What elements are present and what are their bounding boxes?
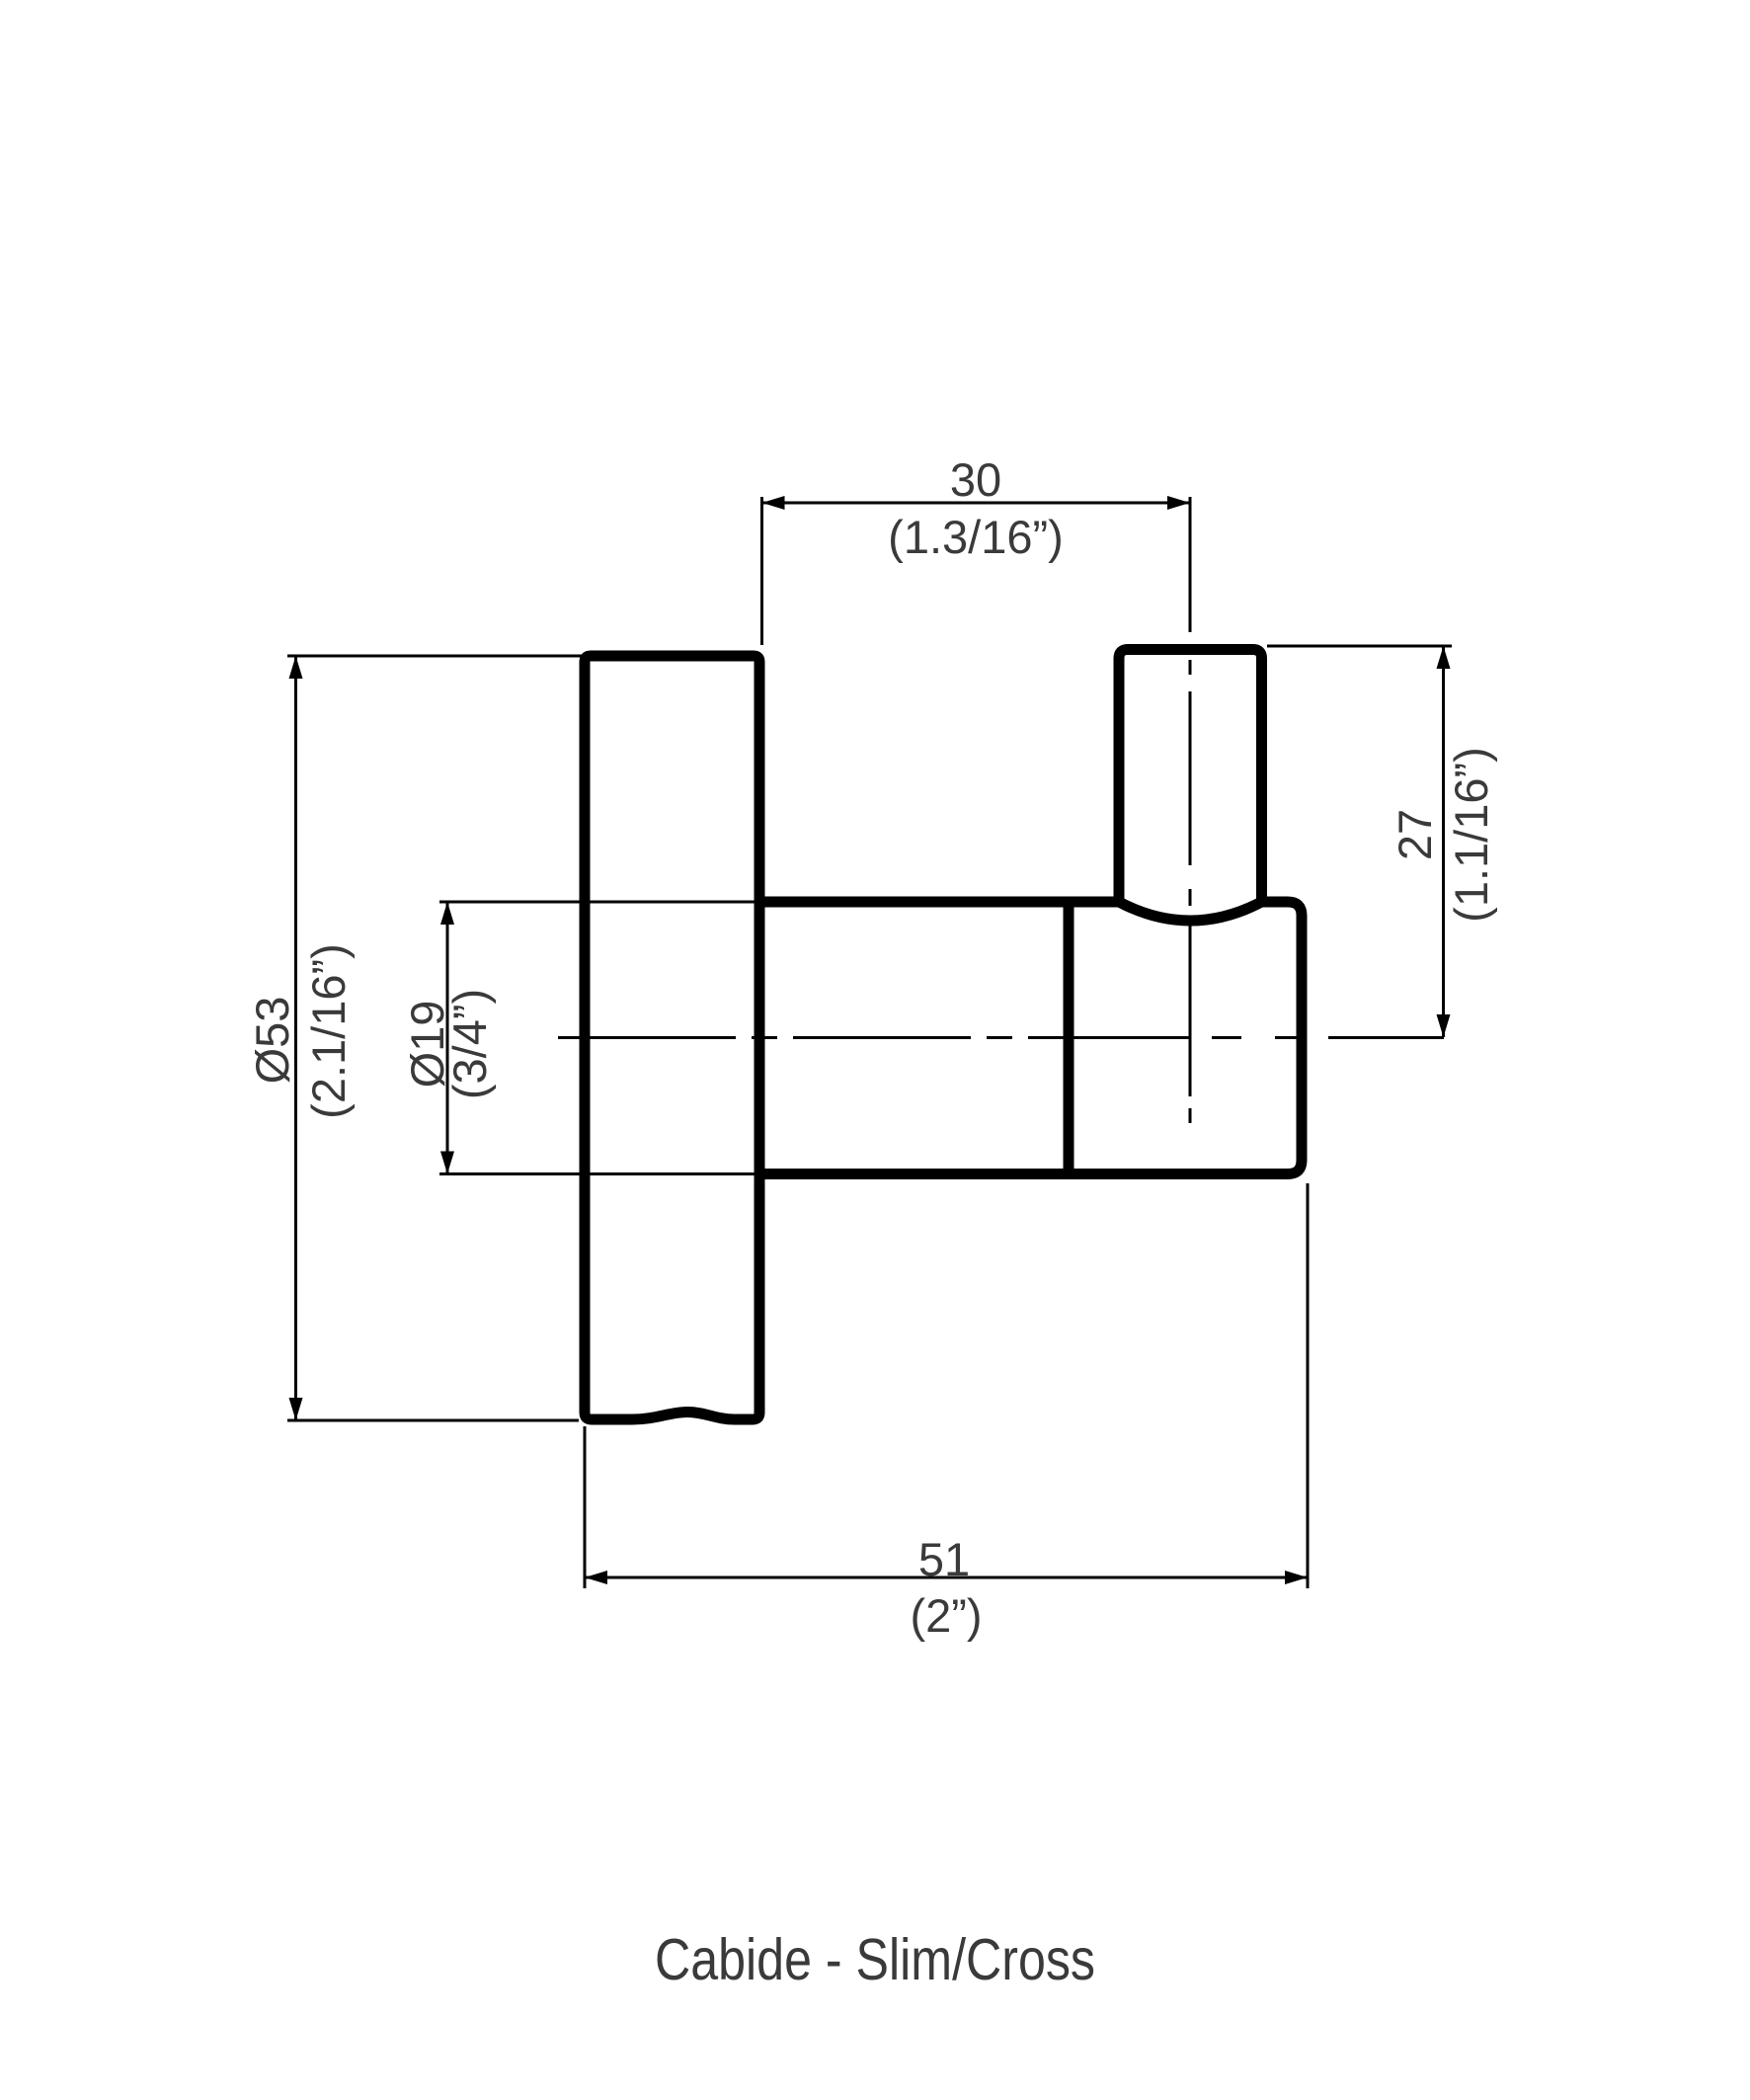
svg-text:51: 51	[918, 1533, 970, 1585]
svg-text:30: 30	[950, 453, 1001, 506]
svg-text:Cabide - Slim/Cross: Cabide - Slim/Cross	[655, 1927, 1095, 1992]
svg-text:27: 27	[1389, 809, 1441, 860]
svg-text:Ø53: Ø53	[246, 997, 298, 1085]
svg-text:(3/4”): (3/4”)	[443, 989, 496, 1099]
svg-text:(2”): (2”)	[910, 1589, 982, 1642]
svg-text:(1.3/16”): (1.3/16”)	[888, 511, 1064, 563]
svg-text:(2.1/16”): (2.1/16”)	[302, 943, 355, 1119]
svg-text:(1.1/16”): (1.1/16”)	[1445, 747, 1497, 923]
